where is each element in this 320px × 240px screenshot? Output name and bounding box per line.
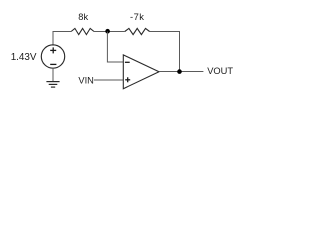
wire -7k to feedback corner — [150, 32, 180, 72]
svg-text:-7k: -7k — [130, 11, 144, 22]
resistor -7k — [125, 28, 150, 34]
resistor 8k — [71, 28, 94, 34]
wire source bottom to ground — [52, 68, 54, 82]
wire node to op-amp inverting input — [107, 32, 123, 63]
svg-text:VIN: VIN — [78, 75, 94, 85]
op-amp U1 — [123, 55, 159, 89]
node junction at inverting input tap — [105, 29, 110, 34]
svg-text:8k: 8k — [78, 12, 88, 22]
wire top rail left (source top to 8k) — [53, 32, 71, 46]
svg-text:1.43V: 1.43V — [11, 52, 37, 63]
wire VIN to op-amp non-inverting input — [94, 79, 123, 81]
node junction at output feedback tap — [177, 69, 182, 74]
wire 8k to -7k through node — [94, 31, 125, 33]
wire op-amp output to VOUT — [159, 71, 203, 73]
ground — [46, 82, 59, 88]
svg-text:VOUT: VOUT — [207, 66, 233, 76]
voltage source V1 1.43V — [41, 45, 64, 68]
